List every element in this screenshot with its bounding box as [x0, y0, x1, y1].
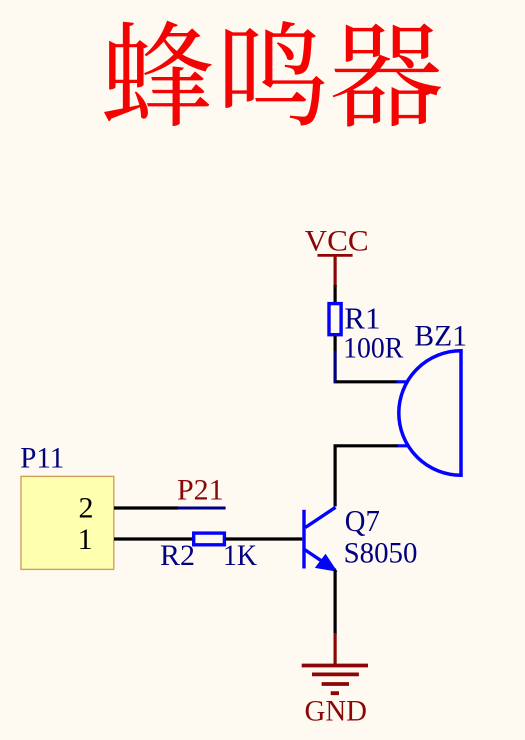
ground bars [302, 666, 368, 694]
power VCC stem [334, 254, 337, 286]
title 蜂鸣器 [104, 21, 441, 127]
svg-text:P21: P21 [177, 474, 224, 507]
wire net P21 navy segment [178, 507, 226, 510]
wire emitter to GND [334, 570, 337, 634]
buzzer BZ1 body [399, 351, 461, 475]
wire R2 to base [225, 537, 302, 540]
transistor Q7 base bar [302, 510, 305, 569]
connector P11 box [21, 476, 114, 569]
wire pin 2 [114, 506, 178, 509]
svg-text:1: 1 [78, 523, 93, 556]
wire R1 bottom black segment [334, 336, 337, 351]
transistor Q7 collector diagonal [305, 507, 335, 527]
svg-text:2: 2 [79, 492, 94, 525]
svg-text:Q7: Q7 [345, 503, 380, 538]
svg-text:GND: GND [305, 695, 368, 728]
wire VCC to R1 [334, 285, 337, 303]
svg-text:100R: 100R [343, 331, 403, 364]
wire buzzer bottom pin to corner [335, 446, 397, 507]
svg-text:1K: 1K [223, 539, 257, 572]
svg-text:R2: R2 [160, 539, 195, 572]
wire pin 1 to R2 [114, 537, 193, 540]
wire navy segment to corner [334, 351, 337, 383]
svg-text:VCC: VCC [305, 225, 369, 258]
svg-text:P11: P11 [20, 442, 64, 475]
wire corner to buzzer top pin [336, 380, 398, 383]
buzzer BZ1 pins [397, 382, 408, 446]
power VCC bar symbol [318, 254, 353, 257]
svg-text:BZ1: BZ1 [414, 320, 467, 353]
ground stem [334, 633, 337, 665]
svg-text:S8050: S8050 [344, 536, 418, 569]
resistor R1 [329, 304, 341, 335]
transistor Q7 emitter diagonal [305, 550, 336, 571]
transistor Q7 emitter arrow [316, 555, 336, 571]
resistor R2 [194, 533, 225, 545]
